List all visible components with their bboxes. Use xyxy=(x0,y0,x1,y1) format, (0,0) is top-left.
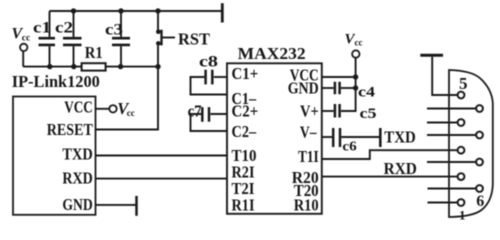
svg-text:c3: c3 xyxy=(105,22,123,39)
node junction dot RST top xyxy=(155,8,160,13)
svg-text:c8: c8 xyxy=(199,54,218,71)
svg-text:c5: c5 xyxy=(360,106,377,122)
pin 1 stub xyxy=(428,202,458,204)
pin 4 stub xyxy=(427,122,458,124)
svg-text:RST: RST xyxy=(178,30,211,49)
svg-text:GND: GND xyxy=(288,79,319,98)
svg-text:cc: cc xyxy=(355,37,363,47)
capacitor c6 on V- pin xyxy=(322,136,332,138)
connector J1 DB9 shell xyxy=(449,70,493,217)
svg-text:RESET: RESET xyxy=(47,120,93,139)
svg-text:R1: R1 xyxy=(85,43,103,62)
pin 9 stub xyxy=(427,108,476,110)
capacitor c3 xyxy=(120,11,122,37)
node junction dot c2 top xyxy=(71,8,76,13)
capacitor c5 on V+ pin xyxy=(322,110,334,112)
svg-text:6: 6 xyxy=(476,193,484,210)
svg-text:V+: V+ xyxy=(300,102,319,121)
svg-text:c2: c2 xyxy=(55,20,73,37)
pin 7 stub xyxy=(427,161,476,163)
svg-text:5: 5 xyxy=(459,74,468,93)
wire RXD to MAX232 R2I xyxy=(96,178,228,180)
svg-text:IP-Link1200: IP-Link1200 xyxy=(12,72,100,91)
svg-text:GND: GND xyxy=(62,195,92,214)
node junction dot c2 bottom xyxy=(71,64,76,69)
node junction dot c1 bottom xyxy=(47,64,52,69)
capacitor c1 xyxy=(49,11,51,37)
svg-text:c6: c6 xyxy=(342,140,356,155)
svg-text:C2+: C2+ xyxy=(232,102,259,121)
wire T1I step up to DB9 pin3 xyxy=(322,150,458,159)
wire ground stem to pin5 xyxy=(432,57,458,95)
wire Vcc stem down to bottom rail xyxy=(22,51,24,66)
svg-text:c4: c4 xyxy=(358,85,376,101)
svg-text:1: 1 xyxy=(459,207,466,222)
wire VCC pin to Vcc line xyxy=(322,76,356,78)
wire TXD to MAX232 T10 xyxy=(96,155,228,157)
pin 5 xyxy=(458,92,465,99)
node top rail end bar xyxy=(221,3,224,22)
capacitor c4 on GND pin xyxy=(322,87,334,89)
svg-text:MAX232: MAX232 xyxy=(238,44,306,63)
pin 3 (TXD) xyxy=(458,147,465,154)
svg-text:VCC: VCC xyxy=(64,97,93,116)
svg-text:cc: cc xyxy=(22,33,30,43)
svg-text:cc: cc xyxy=(127,108,135,118)
ground bar at DB9 shell xyxy=(420,54,443,57)
switch RST xyxy=(157,11,159,30)
pin 2 (RXD) xyxy=(458,173,465,180)
svg-text:TXD: TXD xyxy=(62,145,92,164)
svg-text:c1: c1 xyxy=(33,20,51,37)
capacitor c2 xyxy=(73,11,75,37)
pin 8 stub xyxy=(427,134,476,136)
wire top rail xyxy=(50,10,223,12)
node junction dot c3 top xyxy=(118,8,123,13)
wire RST down to RESET xyxy=(96,46,159,130)
svg-text:TXD: TXD xyxy=(384,127,416,146)
wire VCC pin to Vcc terminal xyxy=(96,108,110,110)
svg-text:C1+: C1+ xyxy=(232,64,259,83)
wire bottom rail right segment xyxy=(106,66,158,68)
resistor R1 xyxy=(82,63,106,70)
wire GND pin stub xyxy=(96,204,136,206)
svg-text:C2–: C2– xyxy=(232,122,257,141)
svg-text:V–: V– xyxy=(300,123,317,142)
wire bottom rail left segment xyxy=(23,66,81,68)
pin 6 stub xyxy=(428,188,477,190)
bar termination of c6 xyxy=(379,128,382,147)
node Vcc terminal at IP-Link xyxy=(109,105,116,112)
svg-text:T1I: T1I xyxy=(298,147,319,166)
ground bar at IP-Link GND xyxy=(135,196,138,216)
wire R20 to DB9 pin2 xyxy=(322,176,457,178)
svg-text:RXD: RXD xyxy=(62,169,92,188)
wire Vcc stem down to c5 xyxy=(341,58,356,111)
svg-text:RXD: RXD xyxy=(384,159,417,178)
node junction dot RST rail xyxy=(155,64,160,69)
svg-text:R10: R10 xyxy=(294,196,319,215)
node junction dot c3 bottom xyxy=(118,64,123,69)
node junction dot VCC xyxy=(353,74,358,79)
svg-text:R1I: R1I xyxy=(232,196,255,215)
